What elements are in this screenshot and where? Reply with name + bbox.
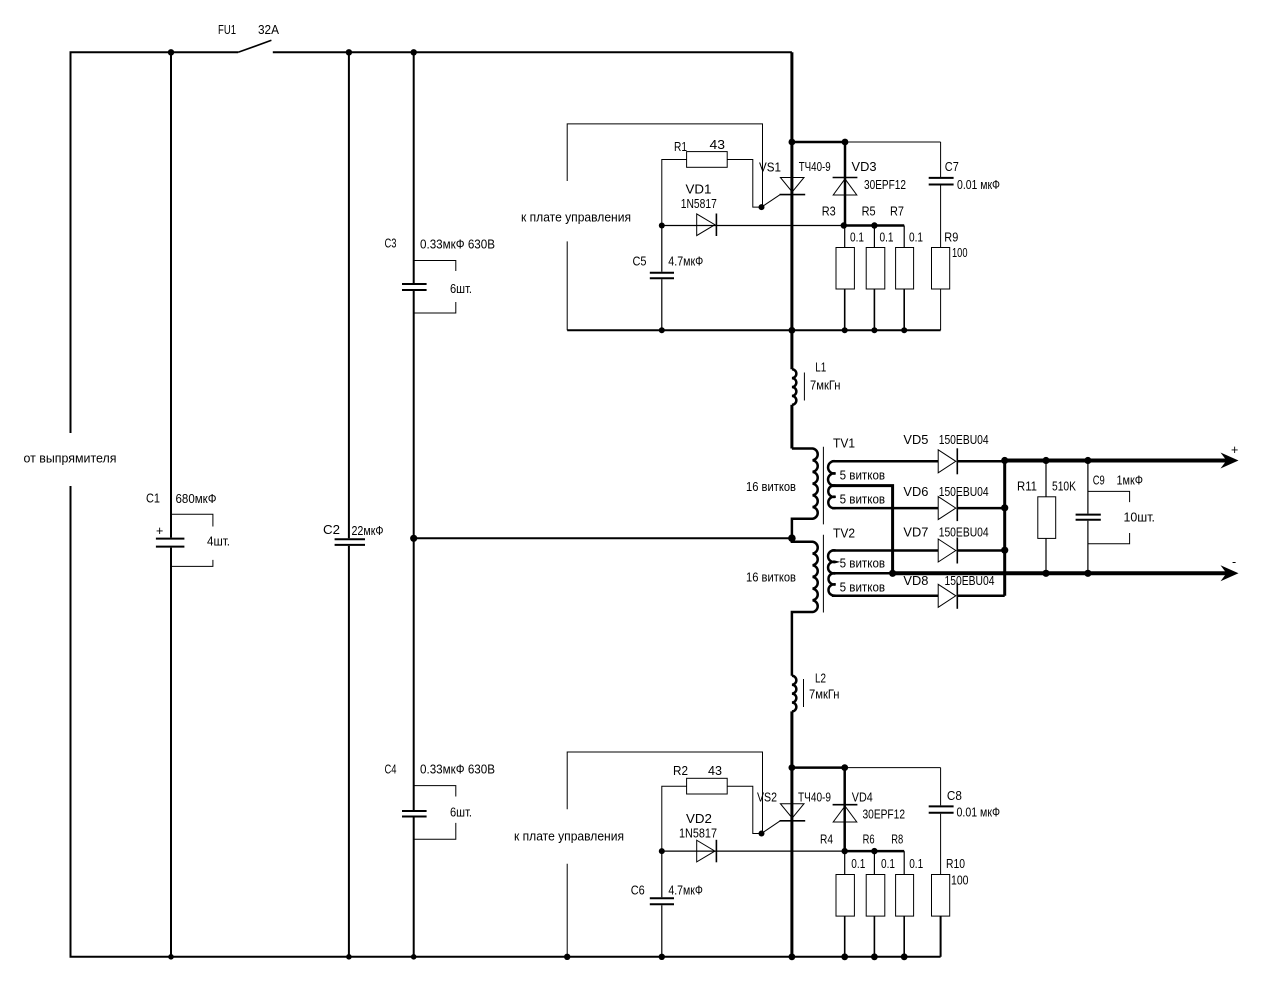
svg-text:0.1: 0.1	[850, 231, 864, 245]
svg-text:R2: R2	[673, 764, 688, 778]
svg-text:-: -	[1232, 555, 1236, 569]
svg-text:43: 43	[708, 764, 722, 778]
svg-text:C8: C8	[947, 789, 962, 803]
svg-text:100: 100	[951, 874, 969, 888]
svg-text:C2: C2	[323, 523, 340, 537]
svg-text:0.01 мкФ: 0.01 мкФ	[957, 806, 1001, 820]
svg-text:6шт.: 6шт.	[450, 282, 472, 296]
svg-text:0.1: 0.1	[881, 857, 895, 871]
svg-text:R11: R11	[1017, 480, 1037, 494]
svg-text:VD2: VD2	[686, 812, 712, 826]
svg-text:C6: C6	[631, 884, 645, 898]
svg-text:+: +	[156, 524, 163, 538]
svg-text:C9: C9	[1093, 474, 1105, 488]
svg-text:ТЧ40-9: ТЧ40-9	[798, 791, 831, 805]
svg-text:30EPF12: 30EPF12	[863, 808, 906, 822]
svg-text:VD6: VD6	[903, 485, 928, 499]
svg-text:1N5817: 1N5817	[681, 197, 717, 211]
svg-text:30EPF12: 30EPF12	[864, 178, 906, 192]
svg-text:R8: R8	[891, 833, 903, 847]
svg-text:VD5: VD5	[903, 433, 928, 447]
svg-text:+: +	[1231, 443, 1238, 457]
svg-text:0.33мкФ 630В: 0.33мкФ 630В	[420, 238, 495, 252]
svg-text:R1: R1	[674, 140, 687, 154]
svg-text:680мкФ: 680мкФ	[176, 492, 217, 506]
svg-text:0.33мкФ 630В: 0.33мкФ 630В	[420, 763, 495, 777]
svg-text:0.1: 0.1	[909, 857, 923, 871]
svg-text:от выпрямителя: от выпрямителя	[24, 452, 117, 466]
svg-text:4.7мкФ: 4.7мкФ	[668, 255, 703, 269]
svg-text:VD8: VD8	[903, 574, 928, 588]
svg-text:L1: L1	[815, 361, 826, 375]
svg-text:7мкГн: 7мкГн	[809, 688, 840, 702]
svg-text:150EBU04: 150EBU04	[939, 526, 989, 540]
svg-text:22мкФ: 22мкФ	[352, 524, 384, 538]
svg-text:VD7: VD7	[903, 526, 928, 540]
svg-text:к плате управления: к плате управления	[521, 211, 631, 225]
svg-text:L2: L2	[815, 672, 826, 686]
svg-text:C7: C7	[945, 160, 959, 174]
svg-text:к плате управления: к плате управления	[514, 830, 624, 844]
svg-text:VS2: VS2	[757, 791, 777, 805]
svg-text:R6: R6	[863, 833, 875, 847]
svg-text:150EBU04: 150EBU04	[939, 485, 989, 499]
svg-text:10шт.: 10шт.	[1124, 511, 1156, 525]
svg-text:C5: C5	[633, 255, 647, 269]
svg-text:R4: R4	[820, 833, 833, 847]
svg-text:5 витков: 5 витков	[840, 493, 886, 507]
svg-text:6шт.: 6шт.	[450, 806, 472, 820]
svg-text:4.7мкФ: 4.7мкФ	[668, 884, 703, 898]
svg-text:FU1: FU1	[218, 23, 236, 37]
svg-text:4шт.: 4шт.	[207, 535, 230, 549]
svg-text:1N5817: 1N5817	[679, 827, 717, 841]
svg-text:5 витков: 5 витков	[840, 557, 886, 571]
svg-text:16 витков: 16 витков	[746, 571, 796, 585]
svg-text:5 витков: 5 витков	[840, 581, 886, 595]
svg-text:R10: R10	[946, 857, 965, 871]
svg-text:R3: R3	[822, 205, 836, 219]
svg-text:VD3: VD3	[852, 160, 877, 174]
svg-text:ТЧ40-9: ТЧ40-9	[799, 160, 831, 174]
svg-text:TV2: TV2	[833, 527, 855, 541]
svg-text:43: 43	[710, 138, 726, 152]
svg-text:16 витков: 16 витков	[746, 480, 796, 494]
svg-text:5 витков: 5 витков	[840, 469, 886, 483]
svg-text:100: 100	[952, 246, 968, 260]
svg-text:VD1: VD1	[686, 183, 712, 197]
svg-text:0.1: 0.1	[909, 231, 923, 245]
svg-text:C3: C3	[385, 237, 397, 251]
svg-text:C1: C1	[146, 492, 160, 506]
svg-text:150EBU04: 150EBU04	[945, 574, 995, 588]
svg-text:150EBU04: 150EBU04	[939, 433, 989, 447]
svg-text:32A: 32A	[258, 23, 280, 37]
svg-text:R9: R9	[944, 231, 958, 245]
svg-text:TV1: TV1	[833, 437, 855, 451]
svg-text:510K: 510K	[1052, 480, 1077, 494]
svg-text:R5: R5	[862, 205, 876, 219]
svg-text:C4: C4	[385, 763, 397, 777]
svg-text:R7: R7	[890, 205, 904, 219]
svg-text:0.1: 0.1	[851, 857, 865, 871]
svg-text:1мкФ: 1мкФ	[1117, 474, 1144, 488]
svg-text:VD4: VD4	[852, 791, 873, 805]
svg-text:VS1: VS1	[759, 161, 781, 175]
svg-text:0.1: 0.1	[880, 231, 894, 245]
svg-text:0.01 мкФ: 0.01 мкФ	[957, 178, 1000, 192]
svg-text:7мкГн: 7мкГн	[810, 379, 841, 393]
